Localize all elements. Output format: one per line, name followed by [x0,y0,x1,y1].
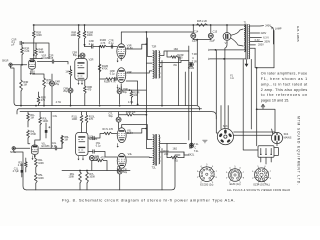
wire T2R centre tap [146,62,152,64]
input socket SK1R [2,60,12,67]
wire V4R anode to T2R [126,71,152,73]
svg-text:to the references on: to the references on [261,93,307,97]
tube base diagram GZ34 octal [252,166,272,187]
svg-text:200V: 200V [258,44,264,47]
junction cathode link [129,89,131,91]
junction bus c [161,105,163,107]
resistor R4L [27,130,37,138]
wire C1L [21,164,23,177]
wire to SK3 b [227,106,229,129]
svg-text:T2L: T2L [152,166,157,169]
junction [99,105,101,107]
junction C14 bus [192,24,194,26]
svg-text:100K: 100K [71,34,77,37]
valve V2L (ECC83 phase splitter) [76,133,98,156]
voltage selector SK3 [217,125,233,145]
wire R8L [61,144,63,148]
capacitor C6R (electrolytic) [63,88,73,94]
svg-text:R19L 1Ω: R19L 1Ω [126,111,136,114]
svg-text:100K: 100K [68,176,74,179]
transformer T1 secondary winding [244,25,245,52]
capacitor C2L (coupling) [45,126,51,133]
junction [86,170,88,172]
wire tap collect [255,48,274,68]
resistor R25 [197,20,208,27]
resistor R7R [43,78,52,88]
svg-text:V4L: V4L [128,153,133,156]
wire 8 ohm tap L [160,152,184,158]
svg-text:50μ: 50μ [123,171,128,174]
wire SK1R ground down [11,66,18,105]
svg-text:32μF: 32μF [209,40,215,43]
svg-text:C15: C15 [213,31,218,34]
svg-text:220: 220 [164,153,169,156]
svg-text:1M: 1M [30,117,33,120]
wire tap bend [271,27,274,44]
svg-text:470: 470 [41,99,46,102]
junction screen L [145,128,147,130]
wire C4R [51,74,53,106]
wire R9L [92,161,107,171]
tube base diagram EL84 [226,166,245,186]
junction R10R [99,46,101,48]
wire mains drop a [250,59,252,129]
svg-text:MAINS: MAINS [284,137,292,140]
resistor R13L [85,115,95,123]
wire to V4R grid [100,78,117,80]
wire mains feed to SK4 [257,109,275,132]
resistor R6L [68,172,81,183]
resistor R16R [83,31,93,39]
svg-text:6.3 V: 6.3 V [263,36,269,39]
wire C2L leads [45,123,47,138]
junction jack L [191,143,193,145]
wire R3L [39,112,41,140]
resistor R2R [21,47,30,54]
svg-text:T.2L: T.2L [194,150,199,153]
terminal ticks heater rail a [208,49,209,51]
svg-text:100K: 100K [89,176,95,179]
transformer T2R secondary winding [159,51,160,78]
svg-text:1M: 1M [23,84,26,87]
svg-text:100K: 100K [72,118,78,121]
resistor R9R [83,86,92,94]
junction heater a [215,49,217,51]
wire 16 ohm tap [160,51,189,56]
svg-text:50μ: 50μ [123,91,128,94]
resistor R17L [103,128,114,135]
transformer T2L secondary winding [159,135,160,164]
wire R19L [119,114,147,116]
resistor R24L [163,150,178,159]
svg-text:μF: μF [12,44,15,47]
valve V3R (EL84 output) [117,44,133,59]
junction [79,170,81,172]
wire heater rail b [210,58,246,60]
ground symbol near bus end [202,140,207,143]
junction R16R bus [84,24,86,26]
wire V1L anode to V2L [40,136,62,149]
svg-text:470K: 470K [102,67,108,70]
resistor R8R [65,70,71,76]
wire PSU drop 2 [216,50,218,133]
svg-text:G.B. 19805: G.B. 19805 [296,26,300,42]
wire SK3 to SK4 a [234,131,275,134]
wire mains box leads [261,157,271,164]
wire to V3R grid [106,46,117,48]
wire V4R screen stub [126,81,137,104]
svg-text:C14: C14 [194,31,199,34]
resistor R11L [72,115,83,123]
capacitor C8L [93,150,94,153]
svg-text:On later amplifiers, Fuse: On later amplifiers, Fuse [261,72,307,76]
junction R1R bus [33,24,35,26]
wire SK1R to V1R grid [12,64,27,66]
wire SK1L to grid [15,147,29,149]
junction [70,105,72,107]
capacitor C4L (electrolytic) [89,155,99,161]
junction C1R out [22,42,24,44]
wire V1R cathode [32,70,44,78]
svg-text:2.2K: 2.2K [24,50,29,53]
svg-text:Fig. 8. Schematic circuit di: Fig. 8. Schematic circuit diagram of ste… [62,197,235,202]
wire SK4 to mains box [276,144,278,146]
junction heater b [223,58,225,60]
wire 6.3V tap [250,37,261,39]
capacitor C5R (electrolytic) [72,51,85,58]
wire PSU drop 3 [224,59,226,128]
wire into SK4 [272,129,273,134]
svg-text:1M: 1M [65,71,68,74]
wire 240V tap [250,25,263,27]
wire R3R grid leak [20,65,22,106]
wire SK1L ground [14,150,27,190]
resistor R5R [37,97,46,105]
wire C9R [119,94,121,104]
junction V7 bus [226,24,228,26]
svg-text:ECC83: ECC83 [42,145,51,148]
junction bus a [20,105,22,107]
svg-text:100K: 100K [38,51,44,54]
wire jack return down [189,72,191,148]
capacitor C9L (electrolytic) [117,168,128,174]
junction bus b [35,105,37,107]
transformer T2R primary winding [153,51,154,79]
wire R5R [38,92,40,106]
wire cathode chain to bus [35,155,36,190]
svg-text:ALL PLUGS & SOCKETS VIEWED: ALL PLUGS & SOCKETS VIEWED FROM REAR [227,189,290,192]
resistor R2L [18,161,27,167]
junction mains feed [256,108,258,110]
svg-text:16Ω: 16Ω [174,48,179,51]
svg-text:MTM SOUND EQUIPMENT LTD.: MTM SOUND EQUIPMENT LTD. [297,116,301,185]
resistor R19R [130,92,140,98]
svg-text:ECC83 (2x): ECC83 (2x) [200,183,213,186]
wire stub [120,31,122,33]
svg-text:2 amp. This also applies: 2 amp. This also applies [261,88,308,92]
junction screen [146,43,148,45]
wire V7 anodes to T1 [231,29,243,46]
resistor R9L [95,157,105,162]
capacitor C2R [49,55,54,64]
wire R1L [27,112,29,127]
svg-text:4.7K: 4.7K [100,42,105,45]
svg-text:T2R: T2R [152,46,157,49]
valve V1R (ECC83 triode) [29,55,50,70]
resistor R6R [71,31,81,39]
transformer T2L core [155,134,156,165]
wire R2L [25,158,27,172]
svg-text:EL84 (4x): EL84 (4x) [230,183,241,186]
resistor R10R [100,39,107,48]
svg-text:50μ: 50μ [73,54,78,57]
wire ground bus [17,106,200,110]
power socket SK4 [271,132,291,143]
svg-text:100K: 100K [38,162,44,165]
capacitor C7R [109,40,114,49]
svg-text:16Ω: 16Ω [173,147,178,150]
wire R9R cathode [84,80,86,106]
wire primary top exit [147,38,152,56]
junction V2R anode [78,55,80,57]
wire ground bus bottom [27,152,190,190]
svg-text:200V: 200V [264,40,270,43]
wire screen tap L [126,129,146,134]
valve V1L (ECC83 triode) [32,142,51,154]
wire 200V tap [250,41,262,43]
wire C14 from bus [192,25,194,33]
wire HT feed to centre taps [146,32,152,149]
wire R6L R7L [80,171,87,190]
capacitor C15 (electrolytic) [208,33,213,38]
svg-text:0.1μ: 0.1μ [96,144,101,147]
svg-text:GZ34 (OCTAL): GZ34 (OCTAL) [253,184,270,187]
wire R4R branch [30,43,42,59]
svg-text:0.1μ: 0.1μ [89,43,94,46]
wire R6R to V2R [78,25,80,59]
svg-text:C3L: C3L [53,115,58,118]
wire C7L [118,112,120,129]
wire R19R [120,87,132,105]
svg-text:25μ: 25μ [55,83,60,86]
wire R7R to ground bus [43,88,45,106]
wire R24L across [167,144,184,158]
wire mains drop b [256,68,258,146]
svg-text:50μ: 50μ [109,115,114,118]
terminal ticks heater rail b [208,58,209,60]
capacitor C1L [13,168,23,174]
valve V4R (EL84 output) [117,68,132,83]
wire HT screen line [121,32,193,44]
svg-text:0.05: 0.05 [49,57,54,60]
mains connector box [258,146,278,157]
svg-text:1M: 1M [64,139,67,142]
capacitor C7L (electrolytic) [108,112,121,122]
svg-text:F1, here shown as 1: F1, here shown as 1 [261,77,307,81]
tube base diagram ECC83 [197,164,218,186]
wire V7 heater down [225,40,227,59]
wire second heater tap [250,44,255,46]
svg-text:100K: 100K [36,34,42,37]
junction V1L cathode [34,155,36,157]
resistor R5L [34,173,44,183]
heater pins V3R V4R [117,58,119,62]
wire R16R [84,25,86,47]
capacitor C8R [110,70,116,81]
svg-text:SK2R: SK2R [188,67,195,70]
junction grid R [21,64,23,66]
svg-text:2.2K: 2.2K [18,164,23,167]
wire screen tap [126,44,147,49]
wire T1 to collect [250,47,255,49]
junction T2L centre feed [146,111,148,113]
transformer T1 primary winding [248,25,251,59]
junction R25 out [210,24,212,26]
svg-text:25μ: 25μ [63,90,68,93]
valve V2R (ECC83 phase splitter) [75,59,94,81]
wire tap descent [273,31,275,68]
resistor R3R [20,80,29,91]
svg-text:100K: 100K [87,34,93,37]
transformer T2L primary winding [153,135,154,165]
svg-text:T.2R: T.2R [192,53,197,56]
wire cathode rail [62,170,130,172]
wire divider down [99,47,101,105]
svg-text:pages 10 and 15.: pages 10 and 15. [261,99,290,103]
wire R8R [70,66,72,88]
wire R11L anode [81,112,83,133]
svg-text:470K: 470K [30,133,36,136]
resistor R8L [61,136,70,145]
svg-text:6.3V: 6.3V [255,39,260,42]
wire C6R to bus [70,93,72,106]
wire feedback down [178,58,180,106]
wire speaker common down [188,46,190,140]
wire C5L [88,134,104,139]
svg-text:4.7μF: 4.7μF [13,170,20,173]
svg-text:amp., is in fact rated at: amp., is in fact rated at [261,82,307,86]
wire cathode link [130,89,147,91]
svg-text:SK1L: SK1L [10,151,17,154]
wire R13L [86,112,88,133]
heater pins V3L V4L [117,143,119,147]
capacitor C4R (electrolytic) [50,81,61,87]
capacitor C14 (electrolytic) [191,33,196,38]
wire T1 to mains box [243,60,258,151]
svg-text:SK3: SK3 [223,125,228,128]
wire V1L anode up [35,140,40,145]
resistor R12R [98,64,108,72]
wire V1R anode to V2R [37,62,68,65]
junction R6R bus [78,24,80,26]
svg-text:47K: 47K [89,118,94,121]
svg-text:SK1R: SK1R [2,60,9,63]
svg-text:8Ω: 8Ω [174,64,177,67]
resistor R1R [32,31,42,38]
svg-text:220V: 220V [261,32,267,35]
wire V4L anode to T2L [126,156,152,159]
resistor R15R [104,78,116,84]
wire heater bus [17,109,202,114]
junction screen stub [137,104,139,106]
wire C4L [91,156,93,171]
heater pins V1L [32,156,34,160]
ground symbol near SK4 feed [261,105,265,110]
svg-text:R15R 4.7K: R15R 4.7K [104,81,116,84]
ground symbol PSU [245,60,249,68]
capacitor C2L [52,142,57,150]
capacitor C3R [89,40,94,48]
wire secondary common [160,61,162,106]
svg-text:1 A: 1 A [230,77,234,80]
junction R19L [146,114,148,116]
svg-text:100K: 100K [38,177,44,180]
wire to V4L grid [88,152,117,158]
svg-text:R25 2.2K: R25 2.2K [197,20,208,23]
resistor R1L [27,114,36,122]
capacitor C9R (electrolytic) [117,88,128,94]
resistor R4R [35,49,45,56]
svg-text:R9L 470: R9L 470 [95,157,105,160]
junction [119,105,121,107]
wire PSU ground return [196,40,198,106]
wire 220V tap [250,32,259,34]
wire C9L to bus [119,166,121,190]
wire SK3 to SK4 b [234,134,272,136]
wire HT bus lower [20,112,216,119]
capacitor C5L [93,136,101,147]
valve V3L (EL84 output) [117,128,133,143]
resistor R19L [126,111,136,116]
input socket SK1L [10,147,17,154]
wire 16 ohm tap L [160,143,187,145]
heater pins V1R [30,71,32,75]
wire C1R to R4R branch [23,43,49,59]
capacitor C1R [12,39,22,47]
output jack SK2R [188,62,195,70]
wire long drop x51 [50,112,52,149]
output jack SK2L [189,143,193,147]
junction C3R node [84,44,86,46]
wire R1R to V1R anode [33,25,35,59]
wire to V3L grid [112,133,117,135]
resistor R4L [34,159,44,167]
resistor R3L [39,117,49,125]
svg-text:V2R: V2R [89,59,94,62]
wire C14 C15 common [193,38,211,39]
wire R23R across [167,51,180,61]
svg-text:4.7Ω: 4.7Ω [56,101,61,104]
heater pins V2R [78,81,80,85]
wire HT bus [33,24,246,26]
svg-text:470: 470 [87,89,92,92]
junction centre tap feed [146,31,148,33]
svg-text:100: 100 [133,94,138,97]
resistor R23R [171,54,184,60]
svg-text:PI. LAMP: PI. LAMP [271,28,282,31]
note text about fuse F1 [261,72,308,103]
svg-text:0.05: 0.05 [52,145,57,148]
wire R4L to grid [28,138,30,144]
svg-text:R17L 470: R17L 470 [103,128,114,131]
svg-text:EL84: EL84 [127,47,133,50]
wire C15 from bus [210,25,212,33]
junction [43,105,45,107]
wire R2R [21,45,23,65]
junction anode R [33,54,35,56]
svg-text:0.1μ: 0.1μ [110,72,115,75]
wire V7 cathode to HT [226,25,228,33]
